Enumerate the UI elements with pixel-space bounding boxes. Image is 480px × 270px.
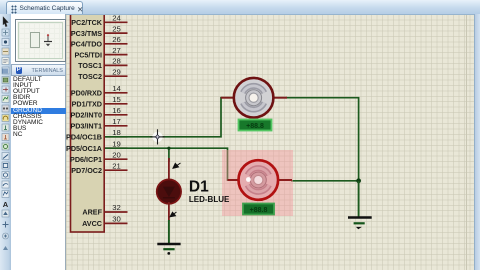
pin 32 — [104, 211, 127, 213]
body — [238, 160, 278, 200]
svg-text:16: 16 — [112, 106, 121, 115]
svg-text:19: 19 — [112, 139, 121, 148]
svg-text:AREF: AREF — [82, 208, 102, 217]
ground terminal under LED — [157, 244, 180, 255]
motor M2 rpm display — [243, 204, 274, 215]
wire LED cathode to ground — [168, 220, 170, 244]
svg-text:PD0/RXD: PD0/RXD — [71, 89, 102, 98]
pin 29 — [104, 75, 127, 77]
svg-text:AVCC: AVCC — [82, 219, 102, 228]
svg-text:21: 21 — [112, 161, 121, 170]
brush arc top — [248, 168, 269, 175]
wire pin19 tee to LED anode — [168, 158, 170, 162]
svg-text:PD1/TXD: PD1/TXD — [72, 100, 102, 109]
motor M1 (top) — [221, 78, 287, 118]
svg-text:26: 26 — [112, 35, 121, 44]
pin 16 — [104, 114, 127, 116]
svg-text:PC2/TCK: PC2/TCK — [71, 18, 103, 27]
svg-text:PC5/TDI: PC5/TDI — [74, 50, 102, 59]
wire LED tee down — [168, 148, 170, 160]
pin 20 — [104, 158, 127, 160]
TERMINALS header — [11, 64, 66, 76]
svg-text:14: 14 — [112, 84, 121, 93]
junction node C — [356, 178, 361, 183]
svg-text:PD6/ICP1: PD6/ICP1 — [70, 155, 102, 164]
preview ground symbol — [40, 33, 58, 55]
svg-text:PC3/TMS: PC3/TMS — [71, 29, 102, 38]
ground terminal right — [348, 218, 372, 230]
svg-text:20: 20 — [112, 150, 121, 159]
pin 14 — [104, 92, 127, 94]
wire top motor right to node C — [286, 98, 359, 181]
svg-text:25: 25 — [112, 24, 121, 33]
pin 17 — [104, 125, 127, 127]
svg-text:TOSC1: TOSC1 — [78, 61, 102, 70]
anode pin — [168, 158, 170, 181]
terminals list — [11, 77, 66, 139]
anode arrow marker — [173, 163, 181, 168]
cathode pin — [168, 202, 170, 221]
sheet edge line — [466, 14, 467, 270]
tab: Schematic Capture — [6, 1, 83, 14]
brush arc top — [243, 86, 264, 93]
svg-text:18: 18 — [112, 128, 121, 137]
IC U1 ATmega body — [71, 10, 105, 232]
svg-text:PD4/OC1B: PD4/OC1B — [66, 133, 102, 142]
svg-text:+88.8: +88.8 — [250, 207, 268, 214]
hub — [250, 172, 266, 188]
left pin — [221, 97, 235, 99]
pin 28 — [104, 64, 127, 66]
wire pin18 to top motor — [105, 98, 232, 137]
svg-text:30: 30 — [112, 215, 121, 224]
svg-text:TOSC2: TOSC2 — [78, 72, 102, 81]
svg-text:+88.8: +88.8 — [246, 123, 264, 130]
wire bottom motor right to node C — [291, 180, 359, 182]
pin 26 — [104, 43, 127, 45]
svg-text:29: 29 — [112, 67, 121, 76]
pin 30 — [104, 222, 127, 224]
pin 15 — [104, 103, 127, 105]
right pin — [278, 179, 293, 181]
svg-text:32: 32 — [112, 203, 121, 212]
white cursor dot — [246, 177, 251, 182]
tab bar — [0, 0, 480, 15]
brush arc bottom — [243, 103, 264, 110]
pin numbers — [112, 14, 121, 224]
left pin — [228, 179, 241, 181]
pin 19 — [104, 147, 127, 149]
overview / preview window — [15, 19, 66, 62]
pin 24 — [104, 21, 127, 23]
wire pin19 to bottom motor — [105, 148, 236, 180]
pin labels inside IC — [66, 18, 103, 228]
svg-text:28: 28 — [112, 57, 121, 66]
motor M2 (bottom, selected) — [228, 160, 293, 200]
junction LED tee — [167, 147, 170, 150]
body — [234, 78, 274, 118]
motor M1 rpm display — [239, 120, 272, 131]
pin 21 — [104, 169, 127, 171]
svg-text:D1: D1 — [189, 179, 209, 196]
object selector panel — [11, 14, 66, 270]
svg-text:PD7/OC2: PD7/OC2 — [71, 166, 102, 175]
hub — [246, 90, 262, 106]
svg-text:27: 27 — [112, 46, 121, 55]
pin 18 — [104, 136, 127, 138]
svg-text:LED-BLUE: LED-BLUE — [189, 195, 230, 204]
preview sheet rect — [30, 32, 40, 48]
pin 25 — [104, 32, 127, 34]
svg-text:17: 17 — [112, 117, 121, 126]
svg-text:PD3/INT1: PD3/INT1 — [70, 122, 102, 131]
svg-text:PD5/OC1A: PD5/OC1A — [66, 144, 102, 153]
svg-text:15: 15 — [112, 95, 121, 104]
body — [157, 179, 181, 203]
LED D1 — [157, 158, 181, 221]
crosshair cursor on wire — [150, 129, 164, 144]
left toolbar — [0, 14, 11, 270]
selection highlight around motor M2 — [222, 150, 293, 216]
IC pin stubs right side — [104, 22, 127, 223]
toolbar icons — [0, 14, 11, 270]
right scrollbar strip — [474, 14, 480, 270]
right pin — [273, 97, 287, 99]
cathode arrow marker — [170, 212, 177, 217]
triangle — [163, 187, 175, 197]
svg-text:A: A — [3, 200, 9, 209]
wire node C to ground — [358, 181, 360, 218]
svg-text:PD2/INT0: PD2/INT0 — [70, 111, 102, 120]
pin 27 — [104, 54, 127, 56]
brush arc bottom — [248, 185, 269, 192]
svg-text:PC4/TDO: PC4/TDO — [71, 40, 103, 49]
